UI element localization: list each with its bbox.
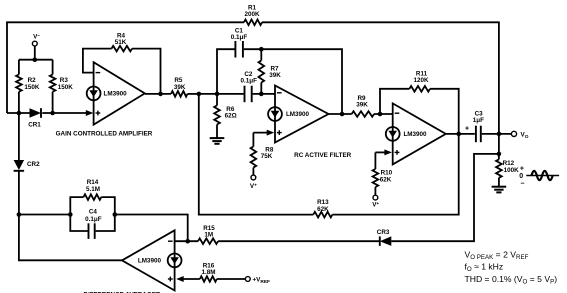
resistor R12 100K xyxy=(496,159,502,177)
svg-text:GAIN CONTROLLED AMPLIFIER: GAIN CONTROLLED AMPLIFIER xyxy=(56,131,153,138)
resistor R14 5.1M xyxy=(70,197,83,214)
resistor R3 150K xyxy=(52,60,54,75)
node V+ terminal for R8 xyxy=(251,175,256,180)
svg-text:120K: 120K xyxy=(413,77,429,84)
svg-text:fO ≈ 1 kHz: fO ≈ 1 kHz xyxy=(465,262,504,274)
svg-text:62K: 62K xyxy=(317,206,329,213)
svg-text:LM3900: LM3900 xyxy=(403,131,427,138)
svg-text:62Ω: 62Ω xyxy=(225,113,237,120)
resistor R8 75K xyxy=(252,133,254,147)
capacitor C3 1uF xyxy=(475,126,477,143)
resistor R9 39K xyxy=(352,111,375,117)
svg-text:62K: 62K xyxy=(380,176,392,183)
resistor R10 62K xyxy=(374,152,376,169)
resistor R4 51K xyxy=(112,46,133,52)
svg-text:0.1μF: 0.1μF xyxy=(231,34,248,41)
wire Vo node down to R12 xyxy=(498,134,500,160)
node R14/C4 left xyxy=(68,212,73,217)
svg-text:VO: VO xyxy=(521,132,529,141)
svg-text:+: + xyxy=(465,126,469,133)
node V- supply terminal xyxy=(32,41,37,46)
output sine wave sketch xyxy=(526,175,559,177)
resistor R5 39K xyxy=(171,91,188,97)
svg-text:39K: 39K xyxy=(269,72,281,79)
svg-text:75K: 75K xyxy=(261,153,273,160)
wire R4 feedback loop xyxy=(83,49,112,73)
svg-text:LM3900: LM3900 xyxy=(286,111,310,118)
wire CR2 branch down-left side xyxy=(18,113,20,160)
svg-text:1.8M: 1.8M xyxy=(202,269,216,276)
node junction CR2 branch / R14-C4 xyxy=(17,212,22,217)
diode CR2 xyxy=(14,160,25,170)
node filter input (R13 tap) xyxy=(197,92,202,97)
wire CR3 to Vo sense xyxy=(391,154,499,241)
resistor R1 200K xyxy=(244,20,262,26)
node V+ terminal for R10 xyxy=(373,195,378,200)
wire amp3 + input from R10 xyxy=(375,151,387,153)
arrow into + input of U1 xyxy=(86,110,94,116)
capacitor C1 0.1uF xyxy=(234,41,236,58)
node C1/R7 junction xyxy=(244,48,261,50)
svg-text:THD = 0.1% (VO = 5 VP): THD = 0.1% (VO = 5 VP) xyxy=(465,274,558,286)
svg-text:V+: V+ xyxy=(372,202,379,209)
wire amp2 + input from R8 xyxy=(253,132,269,134)
resistor R6 62ohm xyxy=(216,94,218,106)
wire R11 feedback loop xyxy=(380,89,409,114)
ground below R12 xyxy=(492,186,507,188)
node C1/R6 junction xyxy=(215,92,220,97)
wire averager + input xyxy=(182,278,200,280)
svg-text:LM3900: LM3900 xyxy=(138,258,162,265)
resistor R11 120K xyxy=(409,86,430,92)
node amp3 output junction xyxy=(446,133,475,135)
wire R15 to CR3 xyxy=(218,240,380,242)
svg-text:+: + xyxy=(520,165,524,172)
op-amp U3 LM3900 output amplifier xyxy=(393,103,446,164)
wire C1 branch up xyxy=(217,49,235,94)
wire CR2 cathode down to averager output net xyxy=(19,171,122,260)
resistor R16 1.8M xyxy=(200,276,217,282)
svg-text:CR2: CR2 xyxy=(27,161,40,168)
svg-text:200K: 200K xyxy=(244,11,260,18)
svg-text:V+: V+ xyxy=(250,183,257,190)
resistor R7 39K xyxy=(260,49,262,60)
node Vo output terminal xyxy=(511,131,516,136)
wire R13 feedback bus xyxy=(199,94,313,215)
svg-text:1μF: 1μF xyxy=(473,117,484,124)
resistor R13 62K xyxy=(313,212,332,218)
node R2/R3 top junction xyxy=(33,57,38,62)
op-amp U1 LM3900 gain controlled amplifier xyxy=(94,62,145,124)
svg-text:51K: 51K xyxy=(115,39,127,46)
op-amp U2 LM3900 RC active filter xyxy=(275,86,329,143)
svg-text:+VREF: +VREF xyxy=(253,277,271,286)
wire C3 to Vo xyxy=(482,133,512,135)
svg-text:1M: 1M xyxy=(204,231,213,238)
diode CR3 xyxy=(380,236,392,246)
svg-text:39K: 39K xyxy=(174,84,186,91)
svg-text:CR1: CR1 xyxy=(28,122,41,129)
node R14/C4 right xyxy=(113,212,118,217)
wire C2 to amp2 inverting input xyxy=(253,93,275,95)
svg-text:RC ACTIVE FILTER: RC ACTIVE FILTER xyxy=(294,152,351,159)
svg-text:0: 0 xyxy=(519,173,523,180)
node amp2 output / C1 feedback junction xyxy=(329,113,352,115)
wire top feedback bus (Vo node to R1 to left side) xyxy=(7,22,244,113)
svg-text:0.1μF: 0.1μF xyxy=(85,216,102,223)
node R9 / R11 junction xyxy=(374,113,393,115)
wire R5 to filter input node xyxy=(188,93,199,95)
svg-text:CR3: CR3 xyxy=(377,229,390,236)
svg-text:0.1μF: 0.1μF xyxy=(240,78,257,85)
op-amp U4 LM3900 difference averager xyxy=(122,230,175,290)
capacitor C2 0.1uF xyxy=(244,86,246,103)
ground below R6 xyxy=(210,137,225,139)
svg-text:C4: C4 xyxy=(89,208,98,215)
capacitor C4 0.1uF xyxy=(70,215,87,232)
svg-text:5.1M: 5.1M xyxy=(86,186,100,193)
svg-text:LM3900: LM3900 xyxy=(104,91,128,98)
resistor R15 1M xyxy=(198,238,218,244)
wire R16 to Vref xyxy=(217,278,246,280)
diode CR1 xyxy=(30,108,42,118)
wire V- to R2/R3 bus xyxy=(34,46,36,60)
svg-text:39K: 39K xyxy=(356,101,368,108)
wire non-inverting input bus of amplifier U1 xyxy=(7,112,30,114)
svg-text:V−: V− xyxy=(33,33,40,40)
resistor R2 150K xyxy=(18,60,20,75)
svg-text:150K: 150K xyxy=(58,84,74,91)
svg-text:VO PEAK = 2 VREF: VO PEAK = 2 VREF xyxy=(465,250,529,262)
svg-text:−: − xyxy=(520,180,524,187)
svg-text:100K: 100K xyxy=(504,167,520,174)
arrow into + input of averager xyxy=(176,276,184,282)
node averager inverting input junction xyxy=(175,240,198,242)
svg-text:150K: 150K xyxy=(24,84,40,91)
node +Vref terminal xyxy=(245,277,250,282)
wire C1 feedback to amp2 output xyxy=(261,49,342,114)
node amp1 output junction xyxy=(158,92,163,97)
